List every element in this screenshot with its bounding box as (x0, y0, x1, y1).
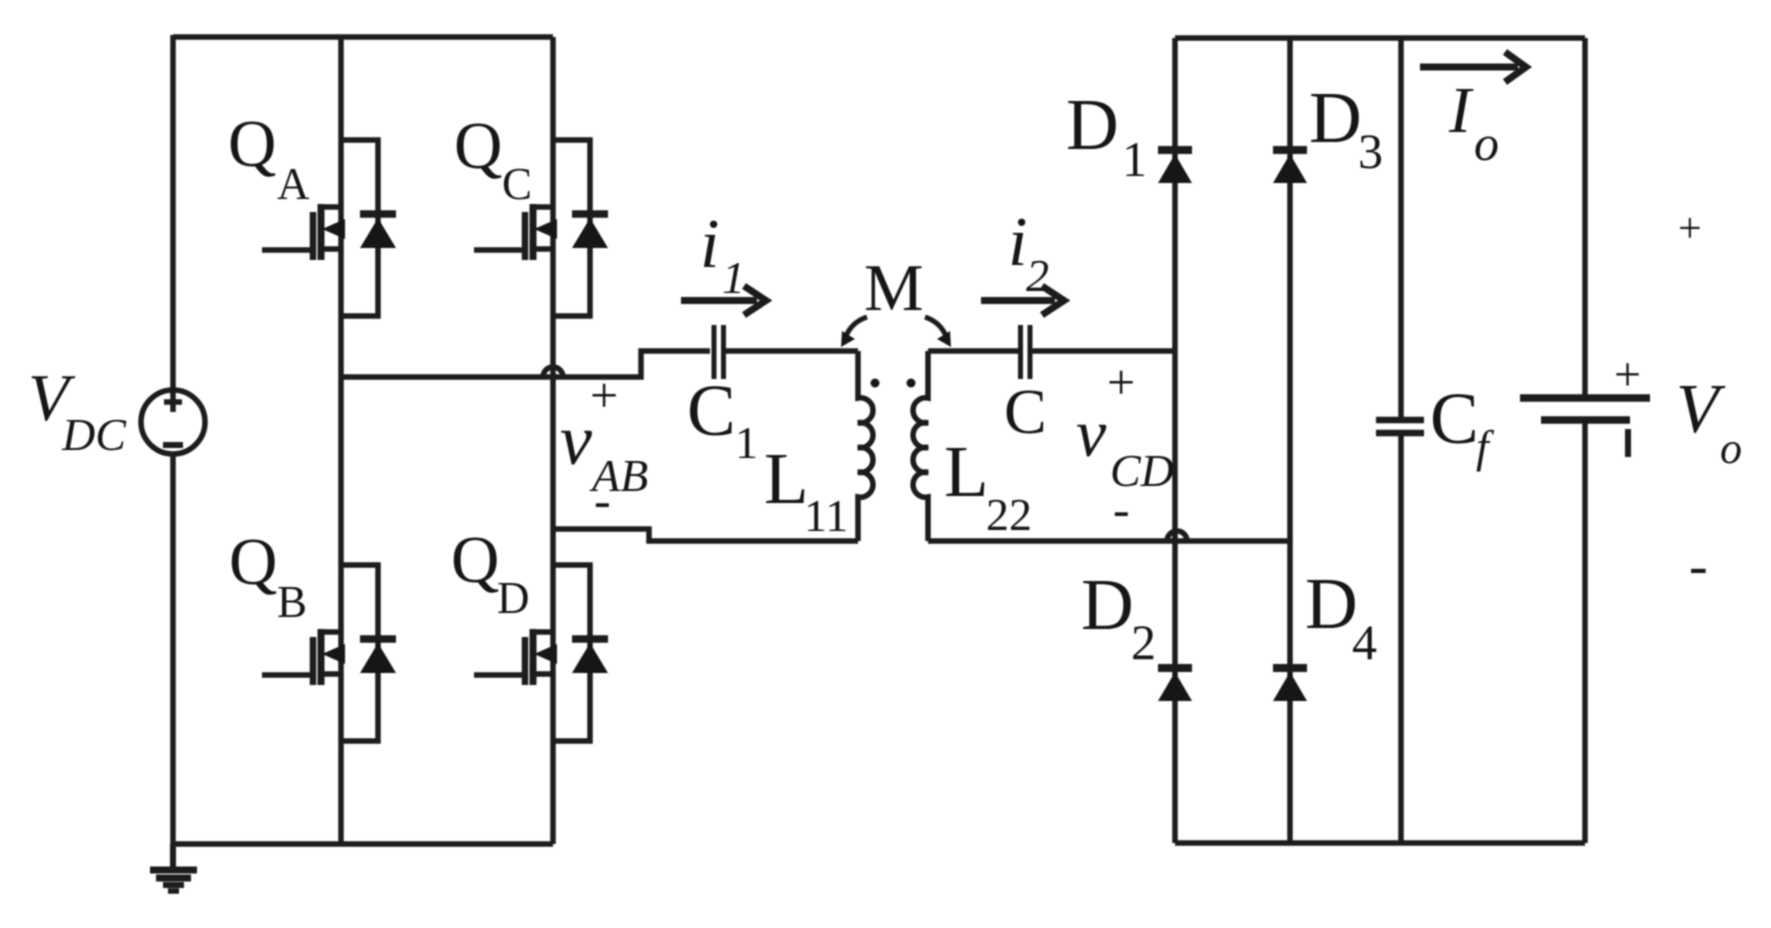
svg-text:A: A (277, 159, 310, 209)
svg-text:V: V (1676, 371, 1726, 448)
svg-text:1: 1 (1122, 131, 1147, 187)
label L22 (944, 431, 1032, 540)
label D1 (1066, 84, 1147, 187)
svg-text:4: 4 (1352, 614, 1377, 670)
diode D1 (1158, 150, 1192, 183)
svg-text:C: C (1430, 378, 1479, 459)
label vAB (560, 400, 648, 501)
battery Vo long plate (1520, 394, 1650, 402)
svg-text:-: - (1689, 535, 1708, 597)
svg-text:2: 2 (1026, 250, 1049, 301)
current arrow i1 (681, 286, 766, 315)
svg-text:M: M (864, 251, 924, 325)
svg-text:22: 22 (986, 489, 1032, 540)
svg-text:+: + (1678, 206, 1702, 252)
label VDC (28, 361, 127, 460)
capacitor Cf (1376, 420, 1424, 433)
diode D2 (1158, 668, 1192, 701)
svg-text:i: i (1008, 204, 1027, 281)
svg-text:C: C (1004, 376, 1047, 447)
svg-text:I: I (1448, 74, 1474, 147)
svg-text:L: L (764, 438, 809, 519)
svg-text:v: v (560, 400, 592, 480)
svg-text:D: D (1066, 84, 1119, 165)
current label i1 (700, 206, 745, 303)
transistor QD (474, 565, 608, 741)
wire Cf rail lower (1398, 436, 1404, 843)
svg-text:D: D (497, 573, 530, 623)
svg-text:2: 2 (1131, 614, 1156, 670)
svg-text:D: D (1305, 563, 1358, 644)
svg-text:-: - (594, 472, 611, 528)
label QC (454, 109, 532, 209)
label QA (228, 107, 310, 209)
node B wire (553, 529, 858, 541)
label QD (451, 523, 530, 623)
svg-text:C: C (502, 159, 532, 209)
wire D1 D2 rail (1172, 38, 1178, 843)
svg-text:1: 1 (722, 252, 745, 303)
label vCD (1076, 395, 1174, 496)
wire top bus left bridge (173, 34, 553, 40)
wire rectifier top bus (1175, 35, 1585, 41)
svg-text:i: i (700, 206, 719, 283)
polarity dot primary (871, 379, 880, 388)
svg-text:o: o (1474, 115, 1499, 171)
svg-text:D: D (1309, 77, 1362, 158)
mutual arrow left (841, 317, 867, 347)
inductor L22 (913, 351, 928, 541)
wire C2 to rectifier (1032, 348, 1175, 354)
svg-text:+: + (1614, 348, 1641, 401)
wire left leg rail (338, 37, 344, 844)
label QB (229, 525, 307, 627)
svg-text:+: + (590, 367, 618, 423)
capacitor C1 (714, 325, 724, 379)
capacitor C2 (1021, 325, 1031, 379)
label D3 (1309, 77, 1383, 179)
transistor QB (262, 565, 396, 741)
transistor QA (262, 140, 396, 316)
label D4 (1305, 563, 1377, 670)
svg-text:+: + (1107, 354, 1135, 410)
svg-text:o: o (1720, 424, 1742, 473)
wire rectifier bottom bus (1175, 840, 1585, 846)
label Io (1448, 74, 1499, 171)
diode D4 (1273, 668, 1307, 701)
svg-text:Q: Q (228, 107, 276, 181)
svg-text:11: 11 (804, 490, 848, 541)
svg-text:3: 3 (1358, 123, 1383, 179)
current label i2 (1008, 204, 1049, 301)
label Cf (1430, 378, 1495, 472)
ground (150, 844, 197, 891)
battery Vo short plate (1541, 416, 1630, 424)
label Vo (1676, 371, 1742, 473)
inductor L11 (858, 351, 873, 541)
svg-text:1: 1 (735, 417, 758, 468)
node D wire with hop over D1 rail (928, 538, 1290, 544)
wire left rail upper (170, 35, 176, 412)
svg-text:-: - (1113, 481, 1130, 537)
svg-text:DC: DC (61, 409, 127, 460)
transistor QC (474, 140, 608, 316)
battery minus tick (1625, 429, 1631, 457)
diode D3 (1273, 150, 1307, 183)
wire C1 to L11 (724, 348, 858, 354)
svg-text:B: B (277, 577, 307, 627)
wire right leg rail (550, 37, 556, 844)
svg-text:D: D (1081, 564, 1134, 645)
wire output rail upper (1582, 38, 1588, 395)
output current arrow Io (1420, 52, 1526, 82)
voltage source VDC (141, 390, 205, 454)
label D2 (1081, 564, 1156, 670)
mutual arrow right (925, 317, 951, 347)
svg-text:Q: Q (451, 523, 499, 597)
wire D3 D4 rail (1287, 38, 1293, 843)
svg-text:Q: Q (229, 525, 277, 599)
svg-text:C: C (687, 370, 736, 451)
wire L22 to C2 (928, 348, 1018, 354)
svg-text:Q: Q (454, 109, 502, 183)
label C1 (687, 370, 758, 468)
label L11 (764, 438, 848, 541)
current arrow i2 (981, 286, 1064, 315)
wire left rail lower (170, 452, 176, 844)
svg-text:L: L (944, 431, 989, 512)
wire bottom bus left bridge (173, 841, 553, 847)
wire output rail lower (1582, 423, 1588, 843)
wire Cf rail upper (1398, 38, 1404, 417)
polarity dot secondary (907, 379, 916, 388)
node A wire with hop over right leg (341, 351, 710, 377)
svg-text:v: v (1076, 395, 1107, 471)
